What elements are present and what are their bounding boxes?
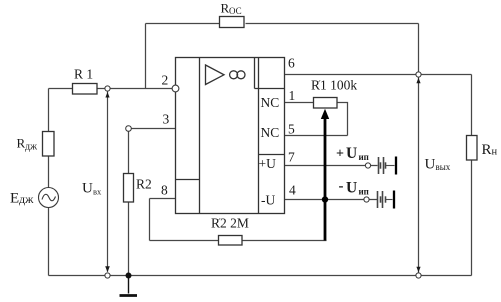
battery +U end bar bbox=[395, 157, 397, 175]
wire R'2 to wiper line bbox=[242, 240, 327, 242]
wire feedback left vertical bbox=[145, 24, 147, 89]
svg-text:+: + bbox=[336, 147, 344, 162]
wire pin7 circle to battery bbox=[371, 165, 378, 167]
node Uvx bottom circle bbox=[105, 273, 110, 278]
label R'1 100k bbox=[311, 78, 357, 93]
ground bar bbox=[120, 294, 138, 297]
wire pin5 bbox=[285, 135, 348, 137]
pin2 inverting input circle bbox=[172, 85, 179, 92]
ground stem bbox=[128, 276, 130, 294]
svg-text:U: U bbox=[346, 180, 357, 197]
wire output measure vertical bbox=[418, 77, 420, 273]
label Uvyx bbox=[425, 157, 451, 173]
Uvx arrow down bbox=[105, 266, 110, 272]
svg-text:ип: ип bbox=[359, 152, 369, 162]
node output bottom circle bbox=[416, 273, 421, 278]
svg-text:Е: Е bbox=[10, 191, 19, 207]
source Edzh circle bbox=[39, 188, 59, 208]
svg-text:U: U bbox=[82, 181, 93, 197]
wire top feedback right segment bbox=[246, 23, 419, 25]
wire pin3 bbox=[131, 128, 176, 130]
label ROC bbox=[221, 1, 242, 17]
wire bottom rail bbox=[49, 275, 472, 277]
battery -U wire to bar bbox=[386, 199, 393, 201]
Uvx arrow up bbox=[105, 92, 109, 98]
wire left rail Edzh to bottom bbox=[48, 208, 50, 276]
svg-text:U: U bbox=[425, 157, 436, 173]
resistor R2 bbox=[124, 174, 134, 203]
wire left rail Rdzh to Edzh bbox=[48, 156, 50, 188]
svg-text:R: R bbox=[482, 142, 492, 158]
node output junction circle bbox=[416, 72, 421, 77]
svg-text:-: - bbox=[339, 179, 344, 195]
label R'2 2M bbox=[211, 216, 249, 231]
junction R2 bottom dot bbox=[126, 273, 132, 279]
svg-text:вх: вх bbox=[93, 187, 102, 197]
label Uvx bbox=[82, 181, 102, 197]
wire feedback right vertical bbox=[418, 24, 420, 73]
svg-text:дж: дж bbox=[19, 192, 34, 206]
svg-text:дж: дж bbox=[25, 142, 37, 153]
op-amp pin6 cell inner line bbox=[254, 58, 256, 89]
svg-text:н: н bbox=[492, 147, 498, 158]
svg-text:5: 5 bbox=[288, 122, 295, 137]
resistor R1 bbox=[73, 84, 98, 95]
wire pin1 to pot bbox=[285, 102, 314, 104]
op-amp right column divider bbox=[258, 58, 260, 214]
svg-text:U: U bbox=[346, 145, 357, 162]
svg-text:´: ´ bbox=[218, 217, 222, 229]
resistor Rdzh bbox=[43, 132, 55, 157]
svg-text:6: 6 bbox=[288, 56, 295, 71]
battery -U terminal circle bbox=[364, 197, 369, 202]
label Rdzh bbox=[17, 136, 38, 153]
svg-text:´: ´ bbox=[318, 79, 322, 91]
wire pin8 to R'2 bbox=[150, 240, 219, 242]
battery +U wire to bar bbox=[386, 165, 395, 167]
wire pin4 bbox=[285, 199, 365, 201]
potentiometer wiper arrow head bbox=[321, 109, 329, 119]
resistor RH load bbox=[467, 136, 478, 161]
label +Uip bbox=[336, 145, 369, 162]
wire top feedback left segment bbox=[146, 23, 221, 25]
Uvyx arrow down bbox=[416, 267, 420, 273]
svg-text:+U: +U bbox=[259, 156, 277, 171]
svg-text:7: 7 bbox=[288, 150, 295, 165]
svg-text:-U: -U bbox=[261, 193, 275, 208]
label RH bbox=[482, 142, 498, 158]
junction pin4 wiper dot bbox=[322, 196, 328, 202]
op-amp right cell divider top bbox=[255, 88, 285, 90]
battery -U plates bbox=[378, 191, 386, 208]
potentiometer wiper thick stem bbox=[324, 115, 327, 241]
svg-text:ип: ип bbox=[359, 187, 369, 197]
op-amp triangle bbox=[206, 65, 225, 85]
svg-text:вых: вых bbox=[436, 162, 451, 172]
potentiometer R'1 body bbox=[314, 98, 338, 109]
Uvyx arrow up bbox=[416, 78, 420, 84]
infinity symbol right loop bbox=[237, 71, 245, 79]
wire left rail R1 to Rdzh bbox=[48, 89, 50, 132]
svg-text:NC: NC bbox=[261, 95, 280, 110]
svg-text:8: 8 bbox=[161, 183, 168, 198]
wire load rail upper bbox=[471, 75, 473, 136]
wire pin6 output horizontal bbox=[285, 74, 472, 76]
wire pin8 vertical bbox=[149, 199, 151, 241]
battery +U terminal circle bbox=[365, 163, 370, 168]
wire pin2 from R1 bbox=[97, 88, 172, 90]
source Edzh sine bbox=[42, 194, 56, 200]
node pin3 circle bbox=[126, 126, 132, 132]
wire R2 to bottom bbox=[128, 202, 130, 276]
svg-text:R 1: R 1 bbox=[74, 67, 93, 82]
svg-text:ОС: ОС bbox=[229, 6, 242, 16]
label -Uip bbox=[339, 179, 369, 197]
wire pin4 circle to battery bbox=[369, 199, 377, 201]
svg-text:4: 4 bbox=[289, 183, 296, 198]
op-amp U1 package outline bbox=[176, 58, 285, 214]
op-amp left column divider bbox=[199, 58, 201, 214]
node Uvx top circle bbox=[105, 86, 110, 91]
wire pin3 node to R2 bbox=[128, 131, 130, 173]
battery -U end bar bbox=[393, 191, 395, 209]
label Edzh bbox=[10, 191, 34, 207]
wire pin8 horizontal bbox=[150, 198, 176, 200]
wire R1 left bbox=[49, 88, 73, 90]
infinity symbol left loop bbox=[230, 71, 238, 79]
wire pin7 bbox=[285, 165, 366, 167]
battery +U plates bbox=[379, 157, 386, 174]
svg-text:R2: R2 bbox=[136, 177, 152, 192]
resistor ROC bbox=[220, 17, 245, 28]
op-amp right cell divider mid bbox=[259, 154, 285, 156]
svg-text:3: 3 bbox=[163, 112, 170, 127]
svg-text:2: 2 bbox=[162, 73, 169, 88]
op-amp left cell divider pin8 bbox=[176, 179, 200, 181]
resistor R'2 bbox=[219, 236, 243, 246]
Uvx measure line bbox=[107, 92, 109, 272]
wire load rail lower bbox=[471, 160, 473, 276]
svg-text:NC: NC bbox=[261, 125, 280, 140]
wire pot right terminal bbox=[337, 103, 348, 136]
svg-text:1: 1 bbox=[289, 88, 296, 103]
